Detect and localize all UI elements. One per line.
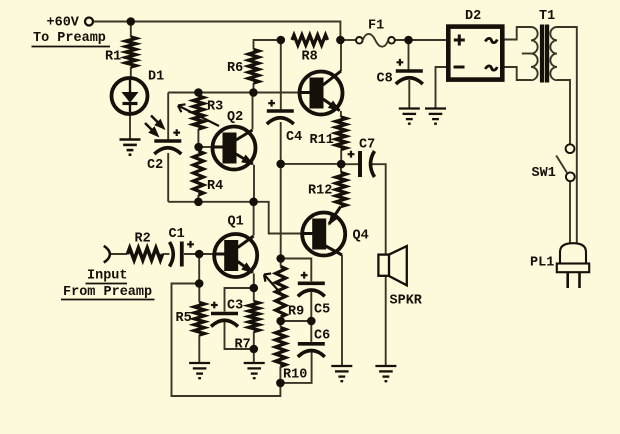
- terminal +60V: [85, 18, 93, 26]
- transistor Q4: [302, 207, 345, 256]
- label R2: [135, 232, 151, 247]
- svg-text:C6: C6: [314, 329, 330, 344]
- wire SPKR to ground: [385, 276, 387, 366]
- svg-text:R1: R1: [105, 50, 121, 65]
- node R7/C3 bottom: [250, 345, 258, 353]
- label C8: [377, 72, 393, 87]
- wire D2 minus to ground: [436, 67, 447, 109]
- svg-text:SPKR: SPKR: [390, 294, 423, 309]
- capacitor C2: [154, 129, 181, 154]
- capacitor C7 (horizontal): [348, 151, 375, 177]
- label From Preamp: [63, 285, 152, 300]
- wire R5 top stub: [198, 284, 200, 303]
- svg-text:T1: T1: [539, 9, 555, 24]
- wire T1 primary top to PL1: [557, 27, 577, 244]
- wire Q4 collector to ground: [341, 255, 343, 366]
- wire Q2 base: [199, 146, 213, 148]
- resistor R2 (horizontal): [128, 248, 163, 260]
- wire C8 to ground: [408, 80, 410, 109]
- label R8: [302, 50, 318, 65]
- wire base rail node B (R3 top / Q3 base): [168, 92, 298, 94]
- label C2: [147, 158, 163, 173]
- input jack: [104, 246, 110, 263]
- node R9/R10: [277, 317, 285, 325]
- resistor R4: [193, 151, 203, 195]
- wire C7 left lead: [341, 163, 358, 165]
- label Q2: [227, 110, 243, 125]
- potentiometer R9: [264, 267, 286, 318]
- wire R8 node down to C4: [280, 40, 282, 110]
- underline Input: [86, 283, 128, 285]
- wire node to C6 top: [310, 321, 312, 342]
- node R3 top: [195, 89, 203, 97]
- svg-text:D1: D1: [148, 70, 164, 85]
- wire node C4-R11 horizontal: [281, 163, 342, 165]
- ground R5: [189, 363, 210, 378]
- PL1 prong left: [566, 272, 569, 288]
- svg-text:R10: R10: [283, 368, 307, 383]
- label To Preamp: [33, 31, 106, 46]
- label R3: [207, 100, 223, 115]
- label R1: [105, 50, 121, 65]
- label D2: [465, 9, 481, 24]
- wire Q1 emitter drop: [253, 274, 255, 289]
- ground C8: [399, 109, 420, 124]
- wire feedback loop bottom: [172, 284, 281, 397]
- svg-text:R9: R9: [288, 305, 304, 320]
- wire R9 node to C5: [281, 259, 312, 282]
- diode D1 (LED): [112, 78, 148, 114]
- wire R9 bottom stub: [280, 317, 282, 321]
- svg-text:R4: R4: [207, 179, 223, 194]
- wire R6 bottom to base rail: [253, 83, 255, 93]
- wire T1 primary bottom to SW1: [557, 80, 570, 144]
- wire R10 top stub: [280, 321, 282, 328]
- ground D2: [425, 109, 446, 124]
- capacitor C4: [267, 100, 294, 124]
- wire D1 to ground: [129, 115, 131, 140]
- svg-text:C7: C7: [359, 138, 375, 153]
- resistor R8 (horizontal): [292, 35, 328, 45]
- wire Q2 emitter drop: [253, 165, 255, 202]
- plug PL1: [557, 243, 589, 272]
- svg-text:R11: R11: [310, 133, 334, 148]
- wire C4 node to R9 top node: [280, 164, 282, 259]
- label C1: [169, 227, 185, 242]
- node Q1E/R7: [250, 284, 258, 292]
- label SW1: [532, 166, 556, 181]
- wire C1 to Q1 base: [184, 253, 214, 255]
- bridge rectifier D2: [448, 27, 502, 80]
- wire C3 bottom jog: [225, 322, 254, 349]
- node R10 bottom: [277, 379, 285, 387]
- svg-text:R3: R3: [207, 100, 223, 115]
- wire R7 bottom to ground: [253, 332, 255, 364]
- wire D2 AC2 to T1: [505, 67, 532, 80]
- wire R12 top stub: [340, 164, 342, 172]
- svg-text:To Preamp: To Preamp: [33, 31, 106, 46]
- resistor R10: [276, 328, 286, 367]
- label Q1: [228, 215, 244, 230]
- wire R2 to C1: [163, 253, 170, 255]
- ground Q4: [331, 366, 352, 381]
- wire T1 center tap stub: [522, 53, 531, 55]
- potentiometer R3: [178, 96, 219, 129]
- wire R4 bottom stub: [197, 195, 199, 202]
- node R11/R12/C7: [337, 160, 345, 168]
- label R12: [308, 184, 332, 199]
- label Q4: [353, 229, 369, 244]
- node R8/F1/Q3C: [337, 36, 345, 44]
- ground D1: [120, 140, 141, 155]
- svg-text:SW1: SW1: [532, 166, 556, 181]
- wire R3 top stub: [197, 93, 199, 97]
- svg-text:Input: Input: [87, 268, 128, 283]
- resistor R11: [336, 117, 346, 150]
- capacitor C5: [298, 272, 325, 297]
- label R11: [310, 133, 334, 148]
- svg-text:Q1: Q1: [228, 215, 244, 230]
- node C5/C6: [308, 317, 316, 325]
- node R4 bottom: [195, 198, 203, 206]
- label R4: [207, 179, 223, 194]
- label F1: [368, 19, 384, 34]
- label +60V: [47, 16, 80, 31]
- transformer T1: [531, 25, 557, 82]
- resistor R1: [126, 37, 136, 67]
- wire C5-C6 node to R9-R10 node: [281, 320, 312, 322]
- wire R3 bottom to node: [197, 129, 199, 147]
- svg-text:C4: C4: [286, 130, 302, 145]
- wire C6 bottom elbow to R10 node: [280, 352, 311, 383]
- wire C7 right lead to SPKR: [372, 164, 386, 254]
- node R6/Q2C: [250, 89, 258, 97]
- label C7: [359, 138, 375, 153]
- wire R10 bottom stub: [279, 367, 281, 383]
- wire R11 bottom stub: [340, 150, 342, 165]
- svg-text:R7: R7: [235, 338, 251, 353]
- transistor Q2: [213, 127, 256, 170]
- wire Q3 collector riser: [340, 40, 342, 71]
- label C4: [286, 130, 302, 145]
- resistor R12: [336, 173, 346, 207]
- label T1: [539, 9, 555, 24]
- wire R9 top stub: [280, 259, 282, 267]
- transistor Q1: [214, 234, 257, 277]
- wire C8 top stub: [408, 40, 410, 70]
- capacitor C3: [211, 302, 238, 327]
- wire R5 to ground: [198, 335, 200, 363]
- svg-text:From Preamp: From Preamp: [63, 285, 152, 300]
- wire F1 row left: [340, 39, 356, 41]
- capacitor C6: [298, 344, 325, 357]
- label C5: [314, 303, 330, 318]
- svg-text:+60V: +60V: [47, 16, 80, 31]
- svg-text:F1: F1: [368, 19, 384, 34]
- label R10: [283, 368, 307, 383]
- svg-text:D2: D2: [465, 9, 481, 24]
- wire Q1 collector riser: [253, 202, 255, 236]
- svg-text:R2: R2: [135, 232, 151, 247]
- wire F1 to C8/D2 node: [395, 39, 446, 41]
- wire R1 to D1: [130, 67, 132, 78]
- resistor R6: [249, 50, 259, 84]
- label C3: [227, 299, 243, 314]
- wire +60V top rail: [93, 22, 340, 41]
- label Input: [87, 268, 128, 283]
- node Q1 base: [195, 250, 203, 258]
- svg-text:R12: R12: [308, 184, 332, 199]
- wire R7 top stub: [253, 288, 255, 302]
- node Q1C/Q2E: [250, 198, 258, 206]
- underline To Preamp: [32, 46, 111, 48]
- svg-text:C8: C8: [377, 72, 393, 87]
- label PL1: [530, 256, 554, 271]
- svg-text:R5: R5: [176, 311, 192, 326]
- node Q2 base: [195, 143, 203, 151]
- svg-text:Q2: Q2: [227, 110, 243, 125]
- node F1/C8/D2: [405, 36, 413, 44]
- node C4/R11 left: [277, 160, 285, 168]
- wire C3 top jog: [225, 288, 254, 312]
- svg-text:C5: C5: [314, 303, 330, 318]
- svg-text:C2: C2: [147, 158, 163, 173]
- svg-text:Q4: Q4: [353, 229, 369, 244]
- node R8 left: [277, 36, 285, 44]
- svg-text:R8: R8: [302, 50, 318, 65]
- fuse F1: [356, 34, 395, 47]
- node +60V/R1: [127, 18, 135, 26]
- wire Q1 base down to R5 node: [198, 254, 200, 284]
- speaker SPKR: [378, 246, 406, 285]
- capacitor C1 (horizontal): [170, 241, 194, 267]
- resistor R7: [249, 302, 259, 332]
- svg-text:C1: C1: [169, 227, 185, 242]
- wire mid rail to Q4 base staircase: [168, 202, 302, 234]
- capacitor C8: [396, 59, 423, 84]
- ground SPKR: [375, 366, 396, 381]
- wire C2 upper stub: [167, 93, 169, 140]
- PL1 prong right: [578, 272, 581, 288]
- wire C2 lower stub: [167, 153, 169, 202]
- label D1: [148, 70, 164, 85]
- wire C4 bottom drop: [280, 122, 282, 164]
- node R9 top: [277, 255, 285, 263]
- label R6: [227, 61, 243, 76]
- wire SW1 to PL1: [569, 181, 571, 244]
- svg-text:C3: C3: [227, 299, 243, 314]
- label R5: [176, 311, 192, 326]
- wire C5 bottom to node: [310, 292, 312, 321]
- wire D2 AC1 to T1: [505, 27, 532, 40]
- svg-text:PL1: PL1: [530, 256, 554, 271]
- wire Q2 collector riser: [252, 93, 254, 130]
- wire R8 row to R6 top: [254, 40, 281, 50]
- wire R1 top stub: [130, 22, 132, 38]
- transistor Q3: [300, 71, 343, 115]
- underline From Preamp: [61, 299, 155, 301]
- switch SW1: [556, 144, 574, 181]
- LED emission arrows: [145, 116, 165, 137]
- node R5 top: [195, 280, 203, 288]
- ground R7: [244, 363, 265, 378]
- svg-text:R6: R6: [227, 61, 243, 76]
- wire R4 top stub: [197, 147, 199, 151]
- wire Q3 emitter to R11: [340, 111, 342, 117]
- label C6: [314, 329, 330, 344]
- label SPKR: [390, 294, 423, 309]
- resistor R5: [194, 303, 204, 336]
- label R7: [235, 338, 251, 353]
- label R9: [288, 305, 304, 320]
- wire input jack to R2: [110, 253, 128, 255]
